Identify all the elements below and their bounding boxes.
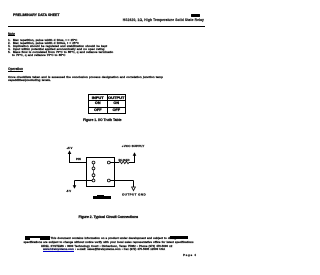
pin 5 xyxy=(107,179,110,182)
output terminal arrow (down, open) xyxy=(132,187,136,191)
wire: input top horizontal to pin 1 xyxy=(69,162,93,164)
note list line 4 xyxy=(8,48,105,51)
pin 6 xyxy=(107,161,110,164)
VCC supply label xyxy=(122,144,145,148)
schematic figure 2 xyxy=(0,130,213,205)
footer: left black badge xyxy=(25,236,50,240)
wire: +5V vertical down xyxy=(69,154,71,164)
-5V arrow (down, filled) xyxy=(73,185,77,189)
footer address line xyxy=(41,245,172,248)
relay package U1 xyxy=(87,158,115,187)
pin 4 xyxy=(92,179,95,182)
note list line 3 xyxy=(8,45,107,48)
svg-text:PIN: PIN xyxy=(76,157,81,161)
pin 1 xyxy=(92,161,95,164)
Operation heading xyxy=(8,68,23,71)
page number xyxy=(183,254,197,257)
footer disclaimer line 2 xyxy=(24,241,194,244)
footer: right black badge xyxy=(170,236,188,239)
note list line 5 xyxy=(8,51,113,54)
figure 1 caption xyxy=(83,119,122,122)
OUTPUT GND label xyxy=(122,193,146,197)
Note heading xyxy=(8,33,15,36)
description paragraph line 2 xyxy=(8,79,51,82)
header left: document title xyxy=(13,14,60,18)
note list line 2 xyxy=(8,42,79,45)
svg-text:-5 V: -5 V xyxy=(66,189,71,193)
VCC arrow (up, filled) xyxy=(133,152,137,156)
resistor RLOAD xyxy=(119,161,129,163)
wire: -5V vertical down xyxy=(74,181,76,186)
+5V supply label xyxy=(67,146,73,150)
+5V arrow (up, filled) xyxy=(68,150,72,154)
pin 3 xyxy=(92,174,95,177)
part number label under schematic xyxy=(93,196,111,199)
horizontal rule under header xyxy=(8,26,205,27)
header right logo xyxy=(191,14,200,17)
figure 2 caption xyxy=(79,216,139,219)
wire: VCC vertical xyxy=(134,155,136,163)
svg-text:OUTPUT GND: OUTPUT GND xyxy=(122,193,146,197)
footer disclaimer line 1 xyxy=(51,237,178,240)
svg-text:RLOAD: RLOAD xyxy=(119,158,131,162)
truth table xyxy=(88,94,126,115)
RLOAD label xyxy=(119,158,131,162)
note list line 1 xyxy=(8,39,77,42)
pin 2 xyxy=(92,167,95,170)
svg-text:+5 V: +5 V xyxy=(67,146,73,150)
wire: -5V horizontal from pin 4 xyxy=(75,180,93,182)
description paragraph line 1 xyxy=(8,76,163,79)
wire: output vertical down xyxy=(133,181,135,188)
-5V supply label xyxy=(66,189,71,193)
wire: output top horizontal from pin 6 xyxy=(110,162,135,164)
wire: output bottom horizontal from pin 5 xyxy=(110,180,133,182)
header right: part title line xyxy=(123,19,204,22)
footer link line xyxy=(43,248,165,251)
input pin label PIN xyxy=(76,157,81,161)
svg-text:+VCC SUPPLY: +VCC SUPPLY xyxy=(122,144,145,148)
note list line 5 wrap xyxy=(12,54,65,57)
internal bus wire (left pin column) xyxy=(93,163,95,181)
